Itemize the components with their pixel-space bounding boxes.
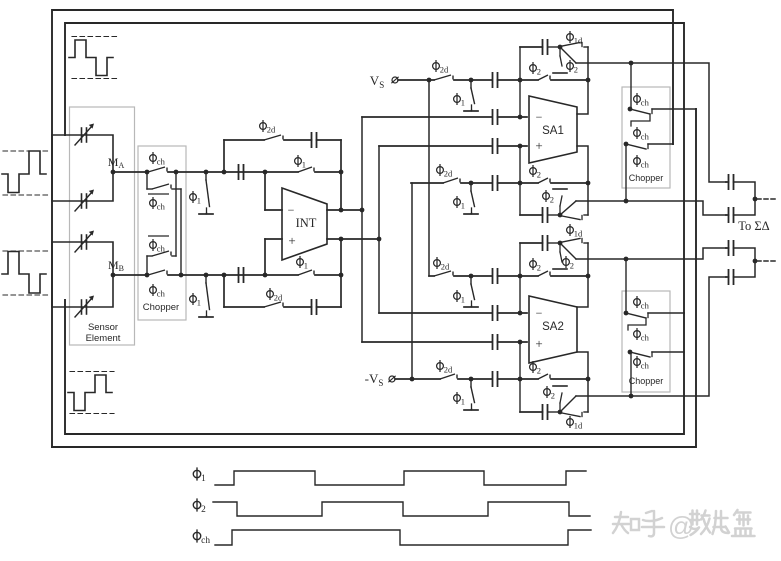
svg-text:1: 1 <box>304 261 308 271</box>
label phi-ch timing <box>193 529 210 546</box>
label phi1 shunt -Vs-SA1 <box>454 196 465 211</box>
wire Vs to SA2 path <box>429 275 434 277</box>
capacitor C-inA <box>239 164 244 180</box>
wire line A through chopper <box>113 171 148 173</box>
label phi2d Vs-SA1 <box>433 60 449 75</box>
label phi1 shunt -Vs-SA2 <box>454 392 465 407</box>
variable capacitor sensor MA-top <box>75 124 94 146</box>
wire bus upper-out to SA inputs <box>361 117 363 342</box>
capacitor C-s1b <box>493 175 498 191</box>
chopper box right upper <box>622 87 670 188</box>
watermark zhihu @sanshipan (hand-drawn gray glyphs) <box>613 511 664 536</box>
svg-text:1d: 1d <box>574 421 583 431</box>
capacitor C-out3 <box>729 240 734 256</box>
label phi2 series SA2a <box>530 258 541 273</box>
label phi2 precharge SA2 bottom <box>544 386 555 401</box>
svg-text:2: 2 <box>570 261 574 271</box>
waveform phi1 timing <box>215 471 586 485</box>
labels phi-ch right upper <box>634 93 650 108</box>
wire SA1 bottom feedback path <box>520 214 543 216</box>
node taps line A <box>222 170 227 175</box>
wire -Vs vertical to SA1 path <box>410 377 415 382</box>
junction dots feedback B <box>339 273 344 278</box>
svg-text:ch: ch <box>201 536 210 546</box>
wire SA2 output line upper to out-cap3 <box>576 248 726 259</box>
junction dots chopper left <box>145 170 150 175</box>
label phi1 series B <box>297 256 308 271</box>
svg-text:ch: ch <box>157 244 166 254</box>
chopper box left <box>138 146 186 320</box>
wire -Vs line <box>395 378 440 380</box>
switch phi-ch-bar row3 <box>152 251 171 256</box>
wire chopper cross row3 <box>146 256 148 275</box>
wire summing vertical SA2 lower <box>519 342 521 412</box>
op-amp SA1 trapezoid <box>529 96 577 163</box>
label phi-ch row4 <box>150 284 166 299</box>
wire bus lower-out to SA inputs <box>378 146 380 313</box>
node on output rail SA2b <box>586 377 591 382</box>
label phi1d middle (shared) <box>567 224 583 239</box>
switch phi2d bottom <box>264 302 283 307</box>
junction dots feedback A <box>339 170 344 175</box>
node taps line B <box>222 273 227 278</box>
chopper box right lower <box>622 291 670 392</box>
svg-text:2d: 2d <box>267 125 276 135</box>
wire SA2 bottom feedback path <box>520 411 543 413</box>
capacitor C-fbA <box>312 132 317 148</box>
label phi2d Vs-SA2 <box>434 257 450 272</box>
chopper right upper S-link <box>631 114 650 126</box>
svg-text:1d: 1d <box>574 229 583 239</box>
node on output rail SA1b <box>586 181 591 186</box>
capacitor C-in-SA2p <box>493 334 498 350</box>
svg-text:To ΣΔ: To ΣΔ <box>738 219 769 233</box>
svg-text:1: 1 <box>461 397 465 407</box>
node MB <box>111 273 116 278</box>
wire Vs line <box>398 79 434 81</box>
variable capacitor sensor MB-top <box>75 231 94 253</box>
wire SA2 top feedback path <box>520 242 543 244</box>
label phi2 series SA2b <box>530 361 541 376</box>
switch phi-ch row4 <box>148 270 167 275</box>
svg-text:ch: ch <box>157 289 166 299</box>
node MA <box>111 170 116 175</box>
wire chopper cross row2 <box>146 172 148 189</box>
wire summing vertical SA2 upper <box>519 243 521 313</box>
wire SA1 output rail lower <box>577 146 588 215</box>
label phi1 shunt A <box>190 191 201 206</box>
svg-text:2: 2 <box>537 67 541 77</box>
wire SA1 minus input line <box>362 116 492 118</box>
wire dashed out lower <box>757 260 778 262</box>
svg-text:−: − <box>536 110 543 124</box>
label phi2d -Vs-SA2 <box>437 360 453 375</box>
chopper right upper row2 input <box>625 144 627 201</box>
switch phi1 shunt Vs-SA2 <box>469 274 474 279</box>
label phi-ch-bar row2 <box>148 194 169 212</box>
switch phi-ch-bar row2 <box>152 184 171 189</box>
node SA2 minus input <box>518 311 523 316</box>
label phi2 precharge SA1 bottom <box>543 190 554 205</box>
waveform symbol left-outside lower (up-down pulse) <box>2 251 48 295</box>
wire feedback-loop L2 (outer bottom: right chopper row1 via bottom edge) <box>52 109 696 447</box>
label phi1d SA1 top <box>567 31 583 46</box>
svg-text:2: 2 <box>537 263 541 273</box>
wire integrator bottom feedback phi2d path <box>223 275 225 307</box>
switch phi2 series SA1a <box>538 75 550 80</box>
label phi2 series SA1a <box>530 62 541 77</box>
node summing SA1 minus <box>518 78 523 83</box>
svg-text:2: 2 <box>550 195 554 205</box>
capacitor C-fbB <box>312 299 317 315</box>
svg-text:+: + <box>535 138 542 153</box>
wire line B through chopper <box>113 274 148 276</box>
capacitor C-out2 <box>729 207 734 223</box>
svg-text:Element: Element <box>86 333 121 344</box>
label phi1d SA2 bottom <box>567 416 583 431</box>
switch phi2d Vs-SA2 <box>434 271 453 276</box>
svg-text:1: 1 <box>201 474 206 484</box>
waveform phi-ch timing <box>215 530 591 545</box>
label phi2 series SA1b <box>530 165 541 180</box>
svg-text:2: 2 <box>537 366 541 376</box>
node summing SA2 minus <box>518 274 523 279</box>
chopper right lower row2 input <box>630 352 632 396</box>
wire INT output upper <box>327 209 362 211</box>
svg-text:+: + <box>535 336 542 351</box>
svg-text:2: 2 <box>537 170 541 180</box>
label phi2d top <box>260 120 276 135</box>
switch phi-ch row1 <box>148 167 167 172</box>
op-amp SA2 trapezoid <box>529 296 577 363</box>
capacitor C-s2a <box>493 268 498 284</box>
wire main line A to integrator <box>206 171 298 173</box>
wire -Vs to SA1 path <box>411 182 443 184</box>
wire sensor branch A loop <box>52 135 113 201</box>
svg-text:Chopper: Chopper <box>629 376 664 386</box>
svg-text:2: 2 <box>551 391 555 401</box>
wire SA2 output rail upper <box>577 243 588 307</box>
wire INT plus input tap <box>264 239 266 275</box>
switch phi1 series B <box>298 270 314 275</box>
node out lower <box>753 259 758 264</box>
switch phi1 series A <box>298 167 314 172</box>
wire summing vertical SA1 upper <box>519 47 521 117</box>
svg-text:1: 1 <box>197 298 201 308</box>
svg-text:2d: 2d <box>440 65 449 75</box>
label phi2d bottom <box>267 288 283 303</box>
svg-text:ch: ch <box>641 333 650 343</box>
wire feedback-loop L3 (inner top: chopper2 row1 via top) <box>65 23 684 313</box>
svg-text:ch: ch <box>157 202 166 212</box>
svg-text:Chopper: Chopper <box>143 302 179 313</box>
capacitor C-fb-SA1m + switch phi1d top + switch phi2 blade + phi2 precharge <box>543 39 548 55</box>
wire SA1 output line upper to out-cap1 <box>576 63 726 182</box>
switch phi2d top <box>264 135 283 140</box>
chopper right upper row2 switch <box>624 142 629 147</box>
switch phi2d -Vs-SA1 <box>443 178 460 183</box>
svg-text:ch: ch <box>641 361 650 371</box>
wire out pair upper join <box>734 182 756 199</box>
capacitor C-in-SA2m <box>493 305 498 321</box>
svg-text:Chopper: Chopper <box>629 173 664 183</box>
wire SA1 top feedback path <box>520 46 543 48</box>
node out upper <box>753 197 758 202</box>
wire out pair lower join <box>734 248 756 261</box>
chopper right lower S-link <box>628 318 646 330</box>
capacitor C-fb-SA1p + switch phi1d bottom + blade + precharge <box>543 207 548 223</box>
wire SA1 output line lower to out-cap2 <box>576 201 726 215</box>
label phi-ch-bar row3 <box>148 236 169 254</box>
wire INT minus input tap <box>264 172 266 210</box>
switch phi1 shunt Vs-SA1 with ground <box>469 78 474 83</box>
node on output rail SA2a <box>586 274 591 279</box>
label phi1 shunt Vs-SA2 <box>454 290 465 305</box>
node SA2 plus input <box>518 340 523 345</box>
capacitor C-s2b <box>493 371 498 387</box>
wire Vs vertical to SA2 path <box>427 78 432 83</box>
wire integrator top feedback phi2d path <box>223 140 225 172</box>
label phi1 timing <box>193 467 206 484</box>
svg-text:2: 2 <box>574 65 578 75</box>
switch phi2 series SA1b <box>538 178 550 183</box>
wire feedback-loop L1 (outer top: right chopper row2 to sensor, via top) <box>52 10 673 447</box>
wire SA2 output line lower to out-cap4 <box>576 277 726 396</box>
svg-text:ch: ch <box>641 132 650 142</box>
chopper right upper row1 input <box>630 63 632 109</box>
node summing SA2 plus <box>518 377 523 382</box>
waveform symbol bottom-left inside (down-up pulse) <box>68 372 114 414</box>
wire main line B to integrator <box>206 274 298 276</box>
wire SA2 output rail lower <box>577 352 588 412</box>
node SA1 plus input <box>518 144 523 149</box>
chopper right lower row1 input <box>625 259 627 313</box>
node summing SA1 plus <box>518 181 523 186</box>
label phi2d -Vs-SA1 <box>437 164 453 179</box>
svg-text:+: + <box>288 233 295 248</box>
node on output rail SA1a <box>586 78 591 83</box>
wire INT output lower <box>327 238 379 240</box>
switch phi2d Vs-SA1 <box>434 75 453 80</box>
wire dashed out upper <box>757 198 778 200</box>
capacitor C-in-SA1m <box>493 109 498 125</box>
svg-text:INT: INT <box>296 216 317 230</box>
wire SA2 plus input line <box>362 341 492 343</box>
switch phi1 shunt -Vs-SA1 <box>469 181 474 186</box>
variable capacitor sensor MA-bottom <box>75 190 94 212</box>
labels phi-ch right lower <box>634 296 650 311</box>
capacitor C-s1a <box>493 72 498 88</box>
capacitor C-out1 <box>729 174 734 190</box>
wire summing vertical SA1 lower <box>519 146 521 215</box>
sensor element box <box>70 107 135 345</box>
svg-text:ch: ch <box>641 98 650 108</box>
capacitor C-in-SA1p <box>493 138 498 154</box>
label phi2 timing <box>193 498 206 515</box>
capacitor C-fb-SA2m + switch phi1d + blade + precharge <box>543 235 548 251</box>
op-amp INT trapezoid <box>282 188 327 260</box>
capacitor C-inB <box>239 267 244 283</box>
svg-text:−: − <box>288 203 295 217</box>
chopper right lower row1 switch <box>624 311 629 316</box>
svg-text:Sensor: Sensor <box>88 322 118 333</box>
label phi1 shunt Vs-SA1 <box>454 93 465 108</box>
variable capacitor sensor MB-bottom <box>75 296 94 318</box>
capacitor C-fb-SA2p + switch phi1d + blade + precharge <box>543 404 548 420</box>
node chopper tap on line 201 <box>624 199 629 204</box>
svg-text:1: 1 <box>461 98 465 108</box>
svg-text:−: − <box>536 306 543 320</box>
label phi2 precharge SA2 top <box>563 256 574 271</box>
node chopper tap on line 63 <box>629 61 634 66</box>
capacitor C-out4 <box>729 269 734 285</box>
switch phi1 shunt line A <box>204 170 209 175</box>
label phi2 precharge SA1 top <box>567 60 578 75</box>
chopper right lower row2 switch <box>628 350 633 355</box>
node chopper tap on line 396 <box>629 394 634 399</box>
wire SA1 output rail upper <box>577 47 588 114</box>
wire sensor branch B loop <box>52 242 113 307</box>
waveform symbol left-outside upper (down-up pulse) <box>2 151 48 195</box>
svg-text:ch: ch <box>641 301 650 311</box>
waveform symbol top-left (up-down pulse between dashed rails) <box>69 37 117 79</box>
label phi1 shunt B <box>190 293 201 308</box>
svg-text:ch: ch <box>157 157 166 167</box>
switch phi1 shunt -Vs-SA2 <box>469 377 474 382</box>
svg-text:2d: 2d <box>274 293 283 303</box>
svg-text:ch: ch <box>641 160 650 170</box>
svg-text:SA1: SA1 <box>542 125 564 137</box>
wire SA2 minus input line <box>379 312 492 314</box>
wire SA1 plus input line <box>379 145 492 147</box>
label phi1 series A <box>295 155 306 170</box>
svg-text:1: 1 <box>461 295 465 305</box>
label phi-ch row1 <box>150 152 166 167</box>
svg-text:1: 1 <box>197 196 201 206</box>
waveform phi2 timing <box>213 502 590 516</box>
switch phi1 shunt line B <box>204 273 209 278</box>
svg-text:2: 2 <box>201 505 206 515</box>
node chopper tap on line 259 <box>624 257 629 262</box>
switch phi2 series SA2b <box>538 374 550 379</box>
svg-text:2d: 2d <box>444 169 453 179</box>
switch phi2d -Vs-SA2 <box>440 374 457 379</box>
svg-text:1d: 1d <box>574 36 583 46</box>
svg-text:1: 1 <box>461 201 465 211</box>
svg-text:1: 1 <box>302 160 306 170</box>
svg-text:SA2: SA2 <box>542 321 564 333</box>
chopper right upper row1 switch <box>628 107 633 112</box>
node SA1 minus input <box>518 115 523 120</box>
wire feedback-loop L4 (inner bottom: chopper2 row2 via bottom) <box>65 300 684 434</box>
svg-text:2d: 2d <box>444 365 453 375</box>
svg-text:2d: 2d <box>441 262 450 272</box>
switch phi2 series SA2a <box>538 271 550 276</box>
